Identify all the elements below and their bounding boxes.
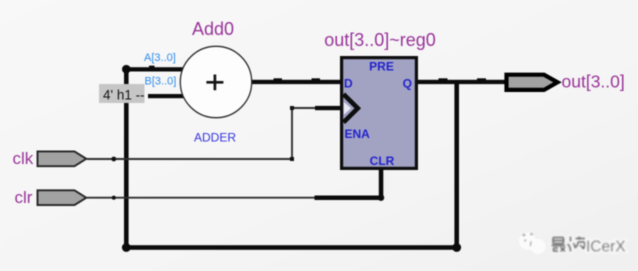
output pin out[3..0]: [507, 75, 558, 90]
junction corner bottom-left: [122, 243, 131, 252]
junction corner top-left: [122, 65, 131, 74]
svg-text:B[3..0]: B[3..0]: [145, 76, 177, 88]
svg-text:CLR: CLR: [370, 154, 395, 168]
wire: clr net thin: [87, 197, 316, 199]
stub bump output pin: [477, 78, 486, 81]
junction dot on clr net: [112, 196, 116, 200]
svg-text:Q: Q: [403, 77, 412, 91]
wire: feedback net bottom horizontal: [124, 245, 459, 250]
wire: CLR stub horizontal thick: [315, 196, 382, 201]
adder Add0 circle: [180, 46, 251, 117]
svg-text:Add0: Add0: [192, 19, 234, 39]
junction dot on clk net: [111, 157, 116, 162]
junction corner at CLR stub: [378, 195, 384, 201]
corner joint clk net upper: [290, 106, 294, 110]
wire: CLR stub vertical thick: [379, 168, 384, 198]
adder plus symbol: [206, 75, 223, 91]
input pin clk: [38, 151, 87, 166]
svg-text:D: D: [344, 77, 353, 91]
stub bump Q output: [439, 78, 448, 81]
wire: clk net thin: [87, 108, 317, 159]
wire: feedback net left vertical (out[3..0] back to adder): [124, 67, 129, 250]
watermark text halo: [552, 237, 586, 252]
svg-text:4' h1 --: 4' h1 --: [103, 88, 145, 103]
svg-text:out[3..0]~reg0: out[3..0]~reg0: [324, 30, 436, 50]
constant 4'h1: [99, 84, 145, 103]
stub bump adder input A: [149, 66, 155, 69]
svg-text:out[3..0]: out[3..0]: [562, 72, 625, 92]
watermark text 最炫 strokes: [552, 237, 586, 252]
watermark logo: [519, 232, 546, 254]
corner joint clk net lower: [290, 157, 294, 161]
clock chevron: [344, 94, 358, 122]
svg-text:PRE: PRE: [369, 60, 394, 74]
wire: B input stub from constant: [148, 94, 185, 98]
svg-text:ADDER: ADDER: [194, 131, 236, 145]
svg-text:clk: clk: [13, 149, 34, 168]
wire: feedback net right vertical: [454, 80, 459, 250]
wire: register Q to output pin: [415, 80, 507, 84]
wire: adder output to register D: [249, 80, 343, 84]
register out[3..0]~reg0 body: [342, 58, 417, 169]
stub bump adder output: [274, 78, 283, 81]
wire: feedback net top horizontal to adder input A: [124, 67, 185, 71]
svg-text:A[3..0]: A[3..0]: [144, 52, 176, 64]
svg-text:ICerX: ICerX: [586, 238, 626, 255]
stub bump register D input: [312, 78, 321, 81]
wire: clock input stub (thick): [315, 106, 343, 110]
input pin clr: [38, 190, 87, 205]
svg-text:ENA: ENA: [345, 127, 371, 141]
svg-text:clr: clr: [15, 188, 33, 207]
junction corner bottom-right: [452, 243, 461, 252]
